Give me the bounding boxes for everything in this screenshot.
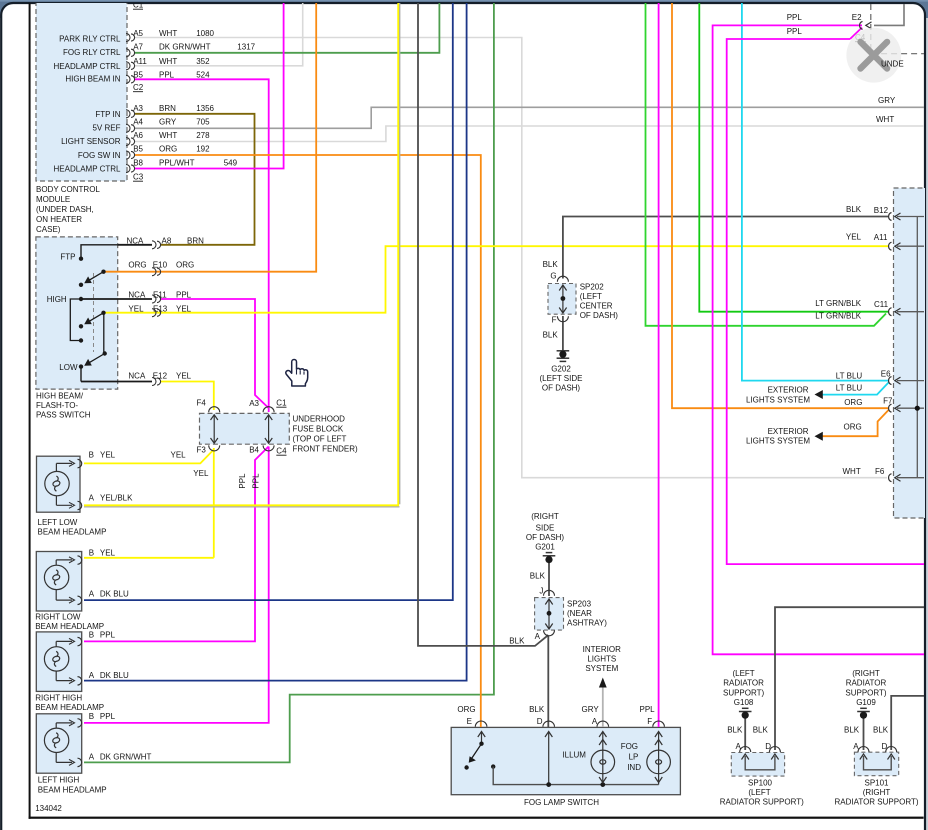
splice SP203 box	[535, 598, 564, 631]
splice SP101 internal	[864, 756, 892, 770]
svg-text:OF DASH): OF DASH)	[526, 533, 565, 542]
svg-text:BEAM HEADLAMP: BEAM HEADLAMP	[38, 786, 107, 795]
svg-text:FUSE BLOCK: FUSE BLOCK	[293, 425, 344, 434]
wire YEL E13 to right box A11	[104, 246, 889, 313]
svg-text:C11: C11	[874, 300, 889, 309]
switch LOW contact to E12	[80, 367, 82, 382]
wire PPL E11 to fuse C1 then C4 to right high beam headlamp B	[84, 299, 269, 641]
svg-text:PPL: PPL	[787, 13, 803, 22]
SP202 labels	[543, 260, 619, 340]
svg-text:BLK: BLK	[543, 331, 559, 340]
svg-text:GRY: GRY	[159, 117, 177, 126]
headlamp bulb left low	[45, 459, 82, 509]
G109 / SP101 labels	[845, 669, 887, 707]
svg-text:SUPPORT): SUPPORT)	[845, 688, 887, 697]
svg-text:LP: LP	[629, 753, 639, 762]
wire PPL to underhood fuse block C4	[727, 28, 924, 565]
left low beam headlamp labels	[38, 451, 209, 537]
splice pack SP101 box	[854, 752, 898, 776]
wire GRY fog switch A to interior lights system	[602, 687, 604, 727]
svg-text:(LEFT: (LEFT	[748, 788, 770, 797]
svg-text:LT BLU: LT BLU	[836, 371, 863, 380]
svg-text:(NEAR: (NEAR	[567, 609, 592, 618]
headlamp bulb right low	[44, 556, 81, 605]
splice SP202 element	[562, 285, 564, 313]
wire YEL/BLK left low beam headlamp A to top, black stripe	[84, 0, 400, 507]
switch arm 3	[88, 354, 105, 364]
svg-text:BLK: BLK	[509, 637, 525, 646]
svg-text:A3: A3	[133, 104, 143, 113]
svg-text:FRONT FENDER): FRONT FENDER)	[293, 445, 359, 454]
svg-text:PPL: PPL	[252, 473, 261, 489]
svg-text:(LEFT SIDE: (LEFT SIDE	[540, 374, 583, 383]
svg-text:BEAM HEADLAMP: BEAM HEADLAMP	[38, 528, 107, 537]
wire YEL fuse F3 down to right low beam headlamp B	[84, 448, 214, 558]
wire WHT 278 A6 to right edge	[134, 126, 924, 142]
svg-text:A: A	[89, 494, 95, 503]
diagram border left	[29, 0, 31, 819]
wire BLK SP202 F to ground G202	[562, 316, 564, 351]
switch HIGH contact	[79, 297, 83, 301]
fuse block pin labels	[197, 399, 288, 456]
svg-text:524: 524	[196, 71, 210, 80]
svg-text:A: A	[592, 717, 598, 726]
svg-text:A: A	[89, 590, 95, 599]
svg-text:LT GRN/BLK: LT GRN/BLK	[815, 299, 862, 308]
svg-text:ORG: ORG	[844, 423, 862, 432]
svg-text:FOG: FOG	[621, 742, 638, 751]
wire BLK ground G108 to SP100 A	[744, 716, 746, 750]
svg-text:LIGHTS: LIGHTS	[587, 655, 616, 664]
high beam / flash-to-pass switch box	[36, 237, 118, 389]
underhood fuse block top-right dashed outline	[871, 4, 924, 54]
svg-text:YEL: YEL	[193, 469, 209, 478]
svg-text:FTP IN: FTP IN	[95, 110, 120, 119]
splice SP100 internal	[745, 756, 775, 770]
wire LT GRN/BLK to right box C11	[699, 0, 888, 312]
svg-text:RIGHT LOW: RIGHT LOW	[35, 613, 81, 622]
wire WHT 352 A11 to top	[134, 0, 303, 66]
wire BLK right edge to SP100 D	[775, 607, 924, 750]
svg-text:BODY CONTROL: BODY CONTROL	[36, 185, 100, 194]
ground G109	[857, 708, 870, 711]
svg-text:F6: F6	[875, 467, 885, 476]
svg-text:HEADLAMP CTRL: HEADLAMP CTRL	[54, 164, 122, 173]
fog lamp switch box	[451, 727, 680, 794]
svg-text:ORG: ORG	[176, 261, 194, 270]
svg-text:SUPPORT): SUPPORT)	[723, 688, 765, 697]
svg-text:549: 549	[224, 158, 238, 167]
svg-text:F3: F3	[197, 446, 207, 455]
svg-text:F4: F4	[197, 399, 207, 408]
switch FTP contact and wire	[81, 245, 118, 259]
svg-text:E13: E13	[153, 304, 168, 313]
svg-text:RADIATOR: RADIATOR	[846, 679, 887, 688]
svg-text:WHT: WHT	[876, 115, 894, 124]
wire ORG to exterior lights system arrow 2	[823, 410, 890, 437]
wire PPL 524 B5 through fuse C1-C4 to left high beam headlamp B	[84, 79, 269, 723]
wire NCA A8 black stub	[118, 244, 152, 246]
svg-text:D: D	[537, 717, 543, 726]
svg-text:352: 352	[196, 57, 210, 66]
svg-text:SP203: SP203	[567, 600, 592, 609]
right high beam headlamp labels	[35, 631, 129, 713]
junction dot right box F7	[915, 406, 920, 411]
svg-text:(TOP OF LEFT: (TOP OF LEFT	[293, 435, 347, 444]
svg-text:A: A	[89, 752, 95, 761]
svg-text:(UNDER DASH,: (UNDER DASH,	[36, 205, 94, 214]
svg-text:PASS SWITCH: PASS SWITCH	[36, 411, 91, 420]
wire BRN 1356 A3 to A8	[134, 114, 255, 245]
svg-text:PPL/WHT: PPL/WHT	[159, 158, 195, 167]
wire BLK internal E2 up	[874, 4, 904, 25]
svg-text:HIGH: HIGH	[47, 295, 67, 304]
svg-text:PPL: PPL	[159, 71, 175, 80]
svg-text:D: D	[765, 742, 771, 751]
svg-text:ORG: ORG	[128, 261, 146, 270]
svg-text:YEL: YEL	[176, 304, 192, 313]
BCM pin ids, wire colors and circuit numbers	[133, 29, 255, 167]
right low beam headlamp box	[36, 552, 81, 612]
svg-text:278: 278	[196, 131, 210, 140]
switch contact labels	[47, 252, 78, 372]
svg-text:DK GRN/WHT: DK GRN/WHT	[100, 752, 152, 761]
svg-text:HEADLAMP CTRL: HEADLAMP CTRL	[54, 62, 122, 71]
wire WHT 1080 A5 to F6	[134, 38, 887, 478]
wire ORG E10 to top	[104, 0, 317, 272]
svg-text:A11: A11	[874, 233, 888, 242]
svg-text:A: A	[853, 742, 859, 751]
svg-text:GRY: GRY	[878, 96, 896, 105]
right high beam headlamp box	[36, 632, 81, 692]
svg-text:B: B	[89, 548, 94, 557]
svg-text:C3: C3	[133, 173, 144, 182]
svg-text:G202: G202	[551, 365, 571, 374]
wire DK GRN/WHT from top to left high beam headlamp A	[84, 0, 494, 762]
wire NCA E11 black stub	[81, 298, 152, 300]
svg-text:WHT: WHT	[159, 131, 177, 140]
splice pack SP100 box	[731, 753, 784, 777]
svg-text:G109: G109	[856, 698, 876, 707]
svg-text:HIGH BEAM/: HIGH BEAM/	[36, 392, 84, 401]
svg-text:PPL: PPL	[176, 291, 192, 300]
svg-text:HIGH BEAM IN: HIGH BEAM IN	[65, 74, 120, 83]
left low beam headlamp box	[37, 456, 81, 512]
underhood fuse block box	[200, 413, 290, 444]
BCM connector labels C1 C2 C3	[133, 1, 144, 182]
svg-text:GRY: GRY	[582, 705, 600, 714]
svg-text:A4: A4	[133, 117, 143, 126]
wire right box internal vertical	[897, 217, 924, 478]
svg-text:E11: E11	[153, 291, 167, 300]
svg-text:1317: 1317	[237, 43, 255, 52]
switch caption	[36, 392, 91, 420]
svg-text:A8: A8	[162, 237, 172, 246]
svg-text:F: F	[552, 316, 557, 325]
svg-text:CENTER: CENTER	[580, 302, 613, 311]
svg-text:ILLUM: ILLUM	[562, 751, 586, 760]
svg-text:J: J	[539, 587, 543, 596]
svg-text:MODULE: MODULE	[36, 195, 70, 204]
wire PPL to fog lamp switch F	[658, 0, 660, 727]
exterior lights system arrow 2	[815, 432, 823, 441]
svg-text:DK GRN/WHT: DK GRN/WHT	[159, 43, 211, 52]
svg-text:LEFT HIGH: LEFT HIGH	[38, 776, 80, 785]
svg-text:B: B	[89, 451, 94, 460]
svg-text:FLASH-TO-: FLASH-TO-	[36, 401, 78, 410]
svg-text:PPL: PPL	[787, 27, 803, 36]
svg-text:B8: B8	[133, 158, 143, 167]
fuse block caption	[293, 415, 359, 454]
svg-text:E: E	[467, 717, 472, 726]
fog lamp switch pin labels	[457, 705, 655, 807]
svg-text:A: A	[535, 632, 541, 641]
svg-text:B: B	[89, 712, 94, 721]
svg-text:G108: G108	[734, 698, 754, 707]
switch bracket HIGH to lower contact	[70, 299, 81, 341]
wire DK GRN/WHT 1317 A7 to top	[134, 0, 439, 53]
svg-text:E6: E6	[881, 370, 891, 379]
wire DK BLU right low beam headlamp A to top	[84, 0, 453, 600]
svg-text:1356: 1356	[196, 104, 214, 113]
svg-text:OF DASH): OF DASH)	[542, 384, 581, 393]
svg-text:FOG LAMP SWITCH: FOG LAMP SWITCH	[524, 798, 599, 807]
svg-text:SIDE: SIDE	[536, 524, 555, 533]
svg-text:FOG RLY CTRL: FOG RLY CTRL	[63, 48, 121, 57]
wire ORG to right box F7	[672, 0, 888, 408]
svg-text:(LEFT: (LEFT	[580, 292, 602, 301]
svg-text:BLK: BLK	[727, 726, 743, 735]
svg-text:IND: IND	[627, 763, 641, 772]
left high beam headlamp labels	[38, 712, 152, 794]
svg-text:192: 192	[196, 145, 210, 154]
svg-text:705: 705	[196, 117, 210, 126]
svg-text:E12: E12	[153, 372, 168, 381]
svg-text:CASE): CASE)	[36, 225, 61, 234]
right low beam headlamp labels	[35, 548, 129, 631]
svg-text:G201: G201	[535, 543, 555, 552]
ground G202	[557, 351, 570, 362]
svg-text:ORG: ORG	[159, 145, 177, 154]
fog switch internal pin arrows	[478, 732, 663, 785]
splice SP202 box	[548, 284, 576, 315]
mouse cursor	[286, 360, 308, 387]
pin E2 arc and arrow top right	[860, 21, 872, 29]
headlamp bulb right high	[44, 637, 81, 685]
svg-text:BLK: BLK	[873, 726, 889, 735]
BCM left pin-function labels	[54, 35, 122, 174]
ground G201 inverted	[543, 553, 556, 556]
svg-text:WHT: WHT	[843, 467, 861, 476]
exterior lights system arrow 1	[815, 390, 823, 399]
svg-text:1080: 1080	[196, 29, 214, 38]
svg-text:YEL: YEL	[176, 372, 192, 381]
wire GRY 705 A4 to right edge	[134, 107, 924, 128]
svg-text:C1: C1	[276, 399, 287, 408]
svg-text:A: A	[736, 742, 742, 751]
switch linkage dashed	[93, 273, 95, 352]
interior lights system label	[583, 645, 621, 673]
svg-text:NCA: NCA	[127, 237, 145, 246]
svg-text:INTERIOR: INTERIOR	[583, 645, 621, 654]
svg-text:ORG: ORG	[457, 705, 475, 714]
wire YEL fuse F3 to left low beam headlamp B	[84, 450, 214, 464]
svg-text:(RIGHT: (RIGHT	[531, 512, 559, 521]
svg-text:RADIATOR SUPPORT): RADIATOR SUPPORT)	[720, 798, 804, 807]
labels over close button: UNDE GRY WHT	[876, 60, 904, 125]
svg-text:NCA: NCA	[128, 372, 146, 381]
right box pin arcs and arrows B12 A11 C11 E6 F7 F6	[889, 213, 901, 482]
svg-text:A: A	[89, 671, 95, 680]
svg-text:LT GRN/BLK: LT GRN/BLK	[815, 312, 862, 321]
svg-text:OF DASH): OF DASH)	[580, 311, 619, 320]
wire BLK SP202 G to right box B12	[563, 217, 888, 279]
G108 / SP100 labels	[723, 669, 765, 707]
wire YEL/BLK left low beam headlamp A to top	[84, 0, 398, 505]
wire NCA E12 black stub	[81, 381, 152, 383]
right box pin labels	[815, 205, 893, 476]
svg-text:UNDE: UNDE	[881, 60, 904, 69]
svg-text:LEFT LOW: LEFT LOW	[38, 518, 78, 527]
svg-text:E10: E10	[153, 261, 168, 270]
svg-text:G: G	[550, 272, 556, 281]
top right E2 C4 labels	[787, 13, 866, 42]
wire LT GRN/BLK second to C11	[646, 0, 887, 326]
svg-text:RADIATOR: RADIATOR	[723, 679, 764, 688]
svg-text:B4: B4	[249, 446, 259, 455]
exterior lights system labels	[746, 386, 810, 446]
svg-text:BEAM HEADLAMP: BEAM HEADLAMP	[35, 703, 104, 712]
svg-text:DK BLU: DK BLU	[100, 671, 129, 680]
svg-text:SP101: SP101	[864, 778, 889, 787]
right-side connector box (cut off at window edge)	[894, 188, 928, 518]
switch arm 1	[88, 272, 104, 282]
svg-text:134042: 134042	[35, 804, 62, 813]
svg-text:ASHTRAY): ASHTRAY)	[567, 619, 607, 628]
svg-text:F: F	[647, 717, 652, 726]
svg-text:YEL: YEL	[100, 548, 116, 557]
svg-text:B5: B5	[133, 145, 143, 154]
svg-text:BLK: BLK	[543, 260, 559, 269]
close button	[846, 28, 901, 83]
svg-text:EXTERIOR: EXTERIOR	[768, 386, 809, 395]
switch arm2 pivot link down	[103, 313, 105, 354]
fog switch internal bus	[493, 767, 658, 785]
pin arcs BCM A5 A7 A11 B5 A3 A4 A6 B5 B8	[126, 34, 135, 173]
svg-text:PPL: PPL	[100, 631, 116, 640]
svg-text:WHT: WHT	[159, 29, 177, 38]
svg-text:YEL: YEL	[846, 233, 862, 242]
svg-text:LOW: LOW	[59, 363, 78, 372]
svg-text:PPL: PPL	[100, 712, 116, 721]
fog switch FOG LP IND bulb	[647, 740, 671, 783]
svg-text:BLK: BLK	[846, 205, 862, 214]
svg-text:SP202: SP202	[580, 283, 605, 292]
svg-text:RIGHT HIGH: RIGHT HIGH	[35, 694, 82, 703]
wire DK BLU right high beam headlamp A to top	[84, 0, 467, 681]
switch pin rows	[127, 237, 205, 381]
svg-text:EXTERIOR: EXTERIOR	[768, 427, 809, 436]
wire BLK ground G201 to SP203 J	[548, 561, 550, 596]
fuse element C1-C4	[268, 415, 270, 443]
fog switch ILLUM bulb	[591, 740, 615, 783]
wire BLK right edge to SP101 D	[891, 696, 924, 750]
svg-text:YEL: YEL	[171, 451, 187, 460]
svg-text:(LEFT: (LEFT	[732, 669, 754, 678]
svg-text:A5: A5	[133, 29, 143, 38]
svg-text:PPL: PPL	[238, 473, 247, 489]
fog switch pin arcs E D A F	[475, 721, 664, 727]
wire PPL/WHT 549 B8 to top	[134, 0, 284, 169]
left high beam headlamp box	[36, 714, 81, 773]
svg-text:LIGHTS SYSTEM: LIGHTS SYSTEM	[746, 437, 810, 446]
svg-text:SP100: SP100	[748, 778, 773, 787]
svg-text:D: D	[882, 742, 888, 751]
svg-text:FOG SW IN: FOG SW IN	[78, 151, 121, 160]
splice SP203 element	[548, 599, 550, 629]
svg-text:UNDERHOOD: UNDERHOOD	[293, 415, 346, 424]
svg-text:A11: A11	[133, 57, 147, 66]
svg-text:A3: A3	[249, 399, 259, 408]
svg-text:F7: F7	[883, 397, 893, 406]
BCM caption	[36, 185, 100, 234]
svg-text:LIGHTS SYSTEM: LIGHTS SYSTEM	[746, 395, 810, 404]
wire LT BLU to exterior lights system arrow	[823, 382, 890, 395]
svg-text:PARK RLY CTRL: PARK RLY CTRL	[59, 35, 121, 44]
svg-text:BRN: BRN	[159, 104, 176, 113]
svg-text:YEL: YEL	[100, 451, 116, 460]
svg-text:BLK: BLK	[753, 726, 769, 735]
svg-text:ON HEATER: ON HEATER	[36, 215, 82, 224]
svg-text:FTP: FTP	[60, 252, 75, 261]
wire PPL to underhood fuse block E2	[713, 25, 924, 654]
svg-text:LT BLU: LT BLU	[836, 384, 863, 393]
fuse element F4-F3	[213, 415, 215, 443]
svg-text:A6: A6	[133, 131, 143, 140]
fuse pin arcs F4 C1 top, F3 C4 bottom	[209, 407, 274, 451]
svg-text:YEL: YEL	[128, 304, 144, 313]
svg-text:C2: C2	[133, 83, 144, 92]
ground G108	[739, 708, 752, 711]
svg-text:B5: B5	[133, 71, 143, 80]
svg-text:5V REF: 5V REF	[92, 123, 120, 132]
pin arcs switch A8 E10 E11 E13 E12	[152, 241, 161, 386]
svg-text:DK BLU: DK BLU	[100, 590, 129, 599]
svg-text:BRN: BRN	[187, 237, 204, 246]
svg-text:PPL: PPL	[640, 705, 656, 714]
diagram border bottom	[29, 817, 924, 819]
svg-text:BLK: BLK	[844, 726, 860, 735]
switch arm 2	[88, 313, 104, 323]
SP203 / G201 labels	[526, 512, 565, 552]
svg-text:YEL/BLK: YEL/BLK	[100, 494, 133, 503]
svg-text:LIGHT SENSOR: LIGHT SENSOR	[61, 137, 121, 146]
svg-text:B: B	[89, 631, 94, 640]
wire BLK vertical to SP203 A and fog switch D	[418, 0, 548, 727]
svg-text:RADIATOR SUPPORT): RADIATOR SUPPORT)	[834, 798, 918, 807]
fog switch toggle	[479, 742, 483, 746]
headlamp bulb left high	[44, 719, 81, 767]
svg-text:BLK: BLK	[530, 572, 546, 581]
svg-text:(RIGHT: (RIGHT	[852, 669, 880, 678]
interior lights system arrow	[602, 681, 604, 687]
svg-text:E2: E2	[852, 13, 862, 22]
svg-text:BLK: BLK	[529, 705, 545, 714]
svg-text:A7: A7	[133, 43, 143, 52]
svg-text:NCA: NCA	[128, 291, 146, 300]
wire YEL E12 to fuse F4	[161, 382, 214, 411]
body control module box	[36, 0, 127, 181]
